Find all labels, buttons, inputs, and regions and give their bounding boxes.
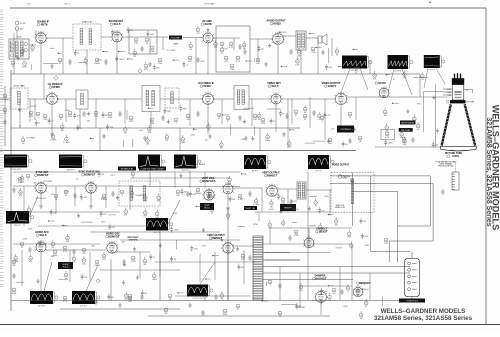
svg-text:7: 7 (34, 38, 35, 40)
svg-text:+255V: +255V (343, 306, 349, 308)
capacitor C14 (238, 115, 241, 121)
resistor R22 (43, 114, 48, 121)
capacitor C1 (140, 46, 143, 52)
resistor vert sec part 2 (270, 199, 274, 208)
right border (485, 8, 487, 325)
waveform photo W12 (146, 218, 173, 234)
wire T2 to speaker (306, 37, 318, 39)
pix control label (399, 128, 413, 132)
svg-text:2.2 MEG: 2.2 MEG (253, 204, 260, 206)
resistor IF sec part 55 (265, 133, 271, 142)
svg-text:4.7K: 4.7K (236, 61, 241, 63)
label HORIZ AFC|6AL5 (35, 231, 49, 237)
capacitor sound sec part 14 (258, 45, 264, 51)
resistor R72 (128, 294, 132, 301)
wire V19 plate (233, 245, 254, 247)
wire sound sec part 35 (253, 58, 255, 62)
wire IF drop 2 (79, 109, 81, 128)
svg-text:.22: .22 (314, 206, 316, 208)
capacitor C41 (94, 299, 97, 305)
svg-text:6SN7GT: 6SN7GT (37, 173, 48, 177)
wire yoke v1 (352, 173, 354, 227)
resistor sync sec part 1 (20, 174, 25, 183)
wire net 4 (149, 37, 151, 54)
resistor IF sec part 26 (124, 125, 128, 134)
svg-text:2: 2 (214, 99, 215, 101)
capacitor C12 (161, 115, 164, 121)
resistor R11 (58, 58, 62, 65)
ground sync 2 (89, 204, 93, 208)
svg-text:150: 150 (19, 195, 22, 197)
svg-text:6W6GT: 6W6GT (212, 236, 222, 240)
brightness control (400, 121, 416, 125)
wire net 63 (13, 211, 120, 213)
vert hold control (200, 203, 214, 210)
ground IF 5 (244, 136, 248, 140)
wire net 15 (34, 99, 36, 120)
svg-text:TO TUNER: TO TUNER (26, 138, 35, 140)
CRT funnel hatch right (463, 105, 476, 146)
tube V18 horiz out spare (352, 285, 364, 296)
resistor crt couple part 4 (383, 108, 387, 117)
svg-text:+270V: +270V (64, 191, 70, 193)
waveform pointer W1b (402, 69, 412, 95)
svg-text:2: 2 (389, 93, 390, 95)
svg-text:VERT LIN: VERT LIN (246, 208, 255, 210)
wire vert drop (227, 195, 229, 206)
wire net 36 (287, 190, 289, 212)
ground IF 4 (208, 134, 212, 138)
resistor IF sec part 16 (303, 105, 307, 114)
resistor R93 (223, 309, 228, 316)
svg-text:270K: 270K (43, 119, 48, 121)
tube V13 horiz osc (105, 241, 118, 253)
resistor R91 (63, 296, 68, 303)
svg-text:LOW VOLT RECT 5U4G: LOW VOLT RECT 5U4G (142, 168, 164, 170)
ground bottom sec part 31 (122, 280, 125, 284)
resistor horiz bot part 13 (364, 299, 368, 308)
left edge chain (4, 86, 6, 146)
svg-text:6AX4GT: 6AX4GT (315, 277, 326, 281)
ground bot 2 (188, 303, 192, 307)
label AUDIO OUTPUT|6AQ5 (266, 20, 286, 26)
waveform photo W1 (388, 55, 414, 73)
capacitor vert sec part 11 (293, 206, 299, 212)
wire net 49 (13, 171, 240, 173)
svg-text:560: 560 (143, 264, 146, 266)
waveform photo W7 (244, 155, 271, 173)
wire V19 drop (227, 253, 229, 300)
svg-text:270K: 270K (94, 116, 99, 118)
wire net 21 (251, 99, 253, 126)
wire crt chain (435, 84, 437, 147)
svg-text:12BY7: 12BY7 (328, 84, 337, 88)
capacitor C6 (196, 57, 199, 63)
junction IF sec part 8 (148, 108, 153, 109)
wire nest h5 (389, 240, 433, 242)
svg-text:.22: .22 (51, 121, 53, 123)
wire IF sec part 2 (30, 105, 37, 107)
svg-text:2: 2 (47, 188, 48, 190)
wire net 54 (262, 243, 352, 245)
svg-text:100K: 100K (108, 117, 113, 119)
svg-text:8V P-P: 8V P-P (15, 225, 22, 227)
capacitor C30 (340, 289, 343, 295)
svg-text:SYNC: SYNC (241, 139, 246, 141)
resistor IF sec part 52 (220, 141, 224, 150)
svg-text:47: 47 (80, 128, 82, 130)
resistor R36 (303, 114, 307, 121)
wire IF e (213, 98, 234, 100)
waveform photo W4 (59, 155, 87, 172)
resistor sync sec part 32 (143, 209, 148, 218)
svg-text:HOLD: HOLD (204, 208, 210, 210)
svg-text:G2: G2 (466, 90, 468, 92)
wire net 18 (124, 99, 126, 124)
resistor sound sec part 13 (242, 41, 246, 50)
svg-text:220: 220 (144, 293, 147, 295)
resistor sync sec part 31 (124, 208, 128, 217)
svg-text:PHOTOFACT: PHOTOFACT (205, 3, 217, 6)
label SOUND DET|6AL5 (109, 20, 124, 26)
resistor R37 (328, 138, 332, 145)
wire horiz bot part 14 (382, 297, 384, 306)
wire video out right (347, 96, 420, 98)
resistor IF sec part 17 (318, 112, 322, 121)
wire vert sec part 8 (258, 212, 260, 222)
tube V1 sound IF amp (34, 31, 47, 43)
test point TP2 (54, 76, 58, 80)
tube V4 audio output (271, 32, 285, 45)
resistor R35 (294, 110, 298, 117)
svg-text:.22: .22 (211, 213, 213, 215)
svg-text:47: 47 (283, 113, 285, 115)
wire net 43 (214, 252, 216, 280)
label B+ boost (135, 195, 145, 197)
capacitor C40 (248, 255, 251, 261)
ground IF sec part 54 (251, 136, 254, 140)
svg-text:PIN 3: PIN 3 (101, 222, 105, 224)
wire sound plate 1 (46, 37, 73, 39)
wire net 13 (287, 99, 289, 148)
wire video up crt (419, 74, 421, 97)
dotted interconnect (455, 162, 457, 172)
wire net 16 (65, 99, 67, 122)
audio coupling network box (129, 30, 157, 54)
wire net 39 (89, 252, 91, 280)
svg-text:SEC 2: SEC 2 (64, 4, 69, 6)
svg-text:470K: 470K (150, 123, 155, 125)
resistor R66 (281, 198, 286, 205)
resistor IF sec part 28 (147, 125, 152, 134)
ground IF 3 (143, 136, 147, 140)
svg-text:B+: B+ (76, 178, 78, 180)
svg-text:2: 2 (47, 38, 48, 40)
ground bot 1 (118, 303, 122, 307)
wire sync sec part 48 (238, 226, 245, 228)
output transformer T2 (296, 31, 306, 50)
junction crt couple part 1 (392, 103, 399, 104)
junction right top part 2 (386, 74, 390, 75)
ground crt couple part 10 (436, 128, 439, 132)
junction sync sec part 40 (48, 220, 55, 221)
label HORIZ OSC|6SN7GT (106, 233, 121, 239)
resistor R30 (186, 114, 191, 121)
label T1 (17, 37, 22, 39)
ground vert sec part 10 (279, 209, 282, 213)
resistor R5 (150, 46, 155, 53)
label trap (13, 85, 25, 88)
resistor bottom sec part 14 (13, 254, 19, 263)
wire plate to T2 (283, 35, 296, 37)
wire sound det in (101, 36, 112, 38)
resistor R74 (203, 294, 207, 301)
wire net 1 (13, 33, 15, 74)
svg-text:321AM58 Series, 321AS58 Series: 321AM58 Series, 321AS58 Series (485, 117, 492, 226)
resistor sound sec part 1 (21, 47, 25, 56)
capacitor C29 (288, 235, 291, 241)
capacitor C34 (12, 273, 15, 279)
bottom bus 3 (148, 315, 330, 317)
svg-text:SYNC: SYNC (101, 198, 106, 200)
capacitor IF sec part 21 (48, 118, 54, 124)
resistor bottom sec part 21 (143, 257, 147, 266)
label photo row (187, 163, 205, 166)
wire net 62 (43, 74, 45, 99)
resistor sync sec part 33 (155, 210, 159, 219)
resistor R9b (230, 64, 235, 71)
wire vert osc out (233, 187, 262, 189)
resistor IF sec part 42 (50, 133, 57, 142)
resistor sound sec part 37 (295, 57, 300, 66)
wire bb drop 4 (227, 208, 229, 301)
resistor IF sec part 40 (21, 136, 25, 145)
capacitor sync sec part 44 (109, 224, 116, 230)
resistor R51 (26, 174, 30, 181)
resistor R54 (101, 194, 108, 201)
svg-text:SEL: SEL (10, 50, 13, 52)
resistor R61 (131, 256, 136, 263)
ground bottom sec part 40 (187, 290, 190, 294)
wire IF sec part 46 (132, 139, 134, 147)
capacitor C17 (348, 138, 351, 144)
svg-text:3-18: 3-18 (27, 4, 31, 6)
label SYNC PHASE INV|6SN7GT (78, 171, 99, 177)
capacitor C2b (243, 49, 246, 55)
wire net 35 (261, 188, 263, 212)
wire net 9 (317, 38, 319, 74)
junction vert sec part 14 (328, 214, 334, 215)
wire yoke tap 5 (263, 279, 353, 281)
capacitor vert sec part 3 (277, 194, 283, 200)
junction IF sec part 36 (289, 129, 294, 130)
svg-text:25V P-P: 25V P-P (351, 70, 359, 72)
resistor R28 (150, 118, 155, 125)
wire net 28 (74, 186, 76, 206)
svg-text:60 CPS: 60 CPS (38, 306, 45, 308)
label Z1 (82, 21, 92, 24)
resistor bottom sec part 37 (124, 292, 129, 301)
svg-text:+135V: +135V (50, 256, 56, 258)
resistor R71 (268, 280, 272, 287)
wire osc out (116, 251, 150, 253)
resistor vert sec part 20 (318, 223, 323, 232)
resistor vert sec part 16 (268, 221, 272, 230)
CRT grid pin labels (447, 89, 468, 97)
resistor sound sec part 25 (84, 57, 88, 66)
label 2nd VIDEO IF|6CB6 (198, 82, 214, 88)
svg-text:470K: 470K (150, 51, 155, 53)
svg-text:2: 2 (46, 247, 47, 249)
resistor R38 (358, 136, 362, 143)
CRT neck pin wires (443, 89, 473, 95)
svg-text:HORIZ OUTPUT: HORIZ OUTPUT (332, 165, 350, 167)
transformer T3 IF (142, 86, 160, 112)
svg-text:RETRACE BL: RETRACE BL (121, 167, 134, 170)
wire net 72 (329, 190, 331, 216)
svg-text:220: 220 (345, 144, 348, 146)
wire net 20 (221, 99, 223, 124)
capacitor bottom sec part 10 (190, 245, 198, 251)
capacitor horiz bot part 3 (320, 288, 328, 294)
resistor sync sec part 19 (143, 193, 148, 202)
capacitor C5 (104, 59, 107, 65)
svg-text:2: 2 (284, 39, 285, 41)
wire net 10 (331, 38, 333, 56)
resistor IF sec part 47 (146, 136, 150, 145)
svg-text:6AV6: 6AV6 (204, 22, 211, 26)
CRT socket pins (455, 73, 461, 78)
wire net 56 (269, 228, 271, 244)
pre-T1 adjust cluster (15, 21, 26, 39)
wire sound sec part 24 (78, 61, 85, 63)
junction sync sec part 10 (241, 173, 247, 174)
svg-text:1 MEG: 1 MEG (152, 279, 158, 281)
capacitor IF sec part 4 (73, 112, 81, 118)
power divider box (119, 181, 160, 206)
label vert horiz coil (335, 205, 345, 209)
junction sound sec part 39 (338, 66, 342, 67)
resistor R3 (134, 38, 138, 45)
svg-text:100K: 100K (223, 314, 228, 316)
wire IF sec part 45 (122, 140, 124, 147)
wire horiz bot part 8 (281, 304, 297, 306)
svg-text:CONTRAST: CONTRAST (340, 128, 352, 131)
svg-text:560: 560 (156, 217, 159, 219)
capacitor sync sec part 23 (208, 193, 216, 199)
capacitor sound top part 2 (127, 27, 134, 33)
resistor R4 (145, 38, 149, 45)
wire net 27 (55, 186, 57, 214)
junction vert sec part 4 (291, 200, 297, 201)
CRT funnel hatch left (440, 105, 452, 146)
resistor R50 (18, 177, 23, 184)
svg-text:470K: 470K (294, 235, 299, 237)
resistor R70 (356, 289, 360, 296)
label crt footnote (436, 161, 457, 168)
svg-text:7: 7 (270, 99, 271, 101)
svg-text:SYNC: SYNC (97, 60, 102, 62)
wire net 32 (174, 172, 176, 188)
wire net 14 (19, 99, 21, 128)
svg-text:6CB6: 6CB6 (203, 84, 211, 88)
resistor R64 (207, 192, 214, 199)
resistor R23 (59, 114, 63, 121)
capacitor sound top part 3 (147, 31, 155, 37)
svg-text:2: 2 (233, 189, 234, 191)
svg-text:7: 7 (201, 99, 202, 101)
resistor R8 (224, 56, 229, 63)
resistor right top part 4 (403, 70, 408, 79)
wire IF b (57, 98, 76, 100)
capacitor C33 (214, 294, 217, 300)
waveform photo W5 (138, 155, 165, 173)
wire IF in (0, 98, 10, 100)
wire damper down (320, 302, 322, 315)
svg-text:4.7K: 4.7K (229, 47, 234, 49)
svg-text:+255V: +255V (27, 229, 33, 231)
svg-text:7: 7 (35, 247, 36, 249)
wire sound sec part 18 (328, 48, 330, 63)
wire afc-osc (46, 249, 106, 251)
junction sound sec part 6 (102, 51, 108, 52)
ground sound sec part 15 (268, 44, 271, 48)
wire net 48 (369, 273, 371, 300)
resistor R92 (128, 296, 132, 303)
wire net 68 (265, 252, 330, 254)
wire vert sec part 19 (309, 225, 316, 227)
svg-text:6SN7GT: 6SN7GT (84, 173, 95, 177)
resistor R68 (294, 230, 299, 237)
wire net 24 (324, 99, 326, 140)
circle picture tube designator (447, 155, 450, 158)
wire sound av bus (140, 36, 168, 38)
svg-text:+140V: +140V (190, 135, 196, 137)
wire IF f (249, 98, 271, 100)
resistor R53 (64, 190, 68, 197)
wire bb drop 1 (40, 252, 42, 301)
wire sync sec part 42 (81, 221, 93, 223)
deflection yoke winding bar (253, 236, 263, 300)
junction sound sec part 28 (127, 58, 133, 59)
svg-text:PIX CONT: PIX CONT (401, 130, 411, 132)
wire net 34 (204, 172, 206, 188)
tube V9 video output (334, 91, 348, 104)
resistor R59 (82, 248, 86, 255)
waveform photo W8 (308, 155, 334, 173)
svg-text:2: 2 (97, 188, 98, 190)
wire net 51 (130, 177, 230, 179)
wire net 71 (351, 266, 353, 300)
svg-text:15,750 CPS: 15,750 CPS (192, 298, 203, 300)
resistor R40 (348, 112, 352, 119)
resistor R56 (20, 242, 24, 249)
svg-text:220: 220 (124, 215, 127, 217)
capacitor bottom sec part 23 (170, 256, 177, 262)
svg-text:7: 7 (221, 248, 222, 250)
wire right top part 5 (413, 77, 428, 79)
wire nest h2 (330, 183, 433, 185)
ground bottom sec part 27 (36, 279, 39, 283)
svg-text:270K: 270K (131, 261, 136, 263)
wire sync sec part 12 (36, 197, 46, 199)
svg-text:TO TUNER: TO TUNER (167, 50, 176, 52)
svg-text:7: 7 (378, 93, 379, 95)
resistor R75 (164, 308, 168, 315)
wire net 50 (13, 185, 20, 187)
svg-text:HEIGHT: HEIGHT (284, 207, 292, 209)
wire bb drop 2 (110, 259, 112, 300)
